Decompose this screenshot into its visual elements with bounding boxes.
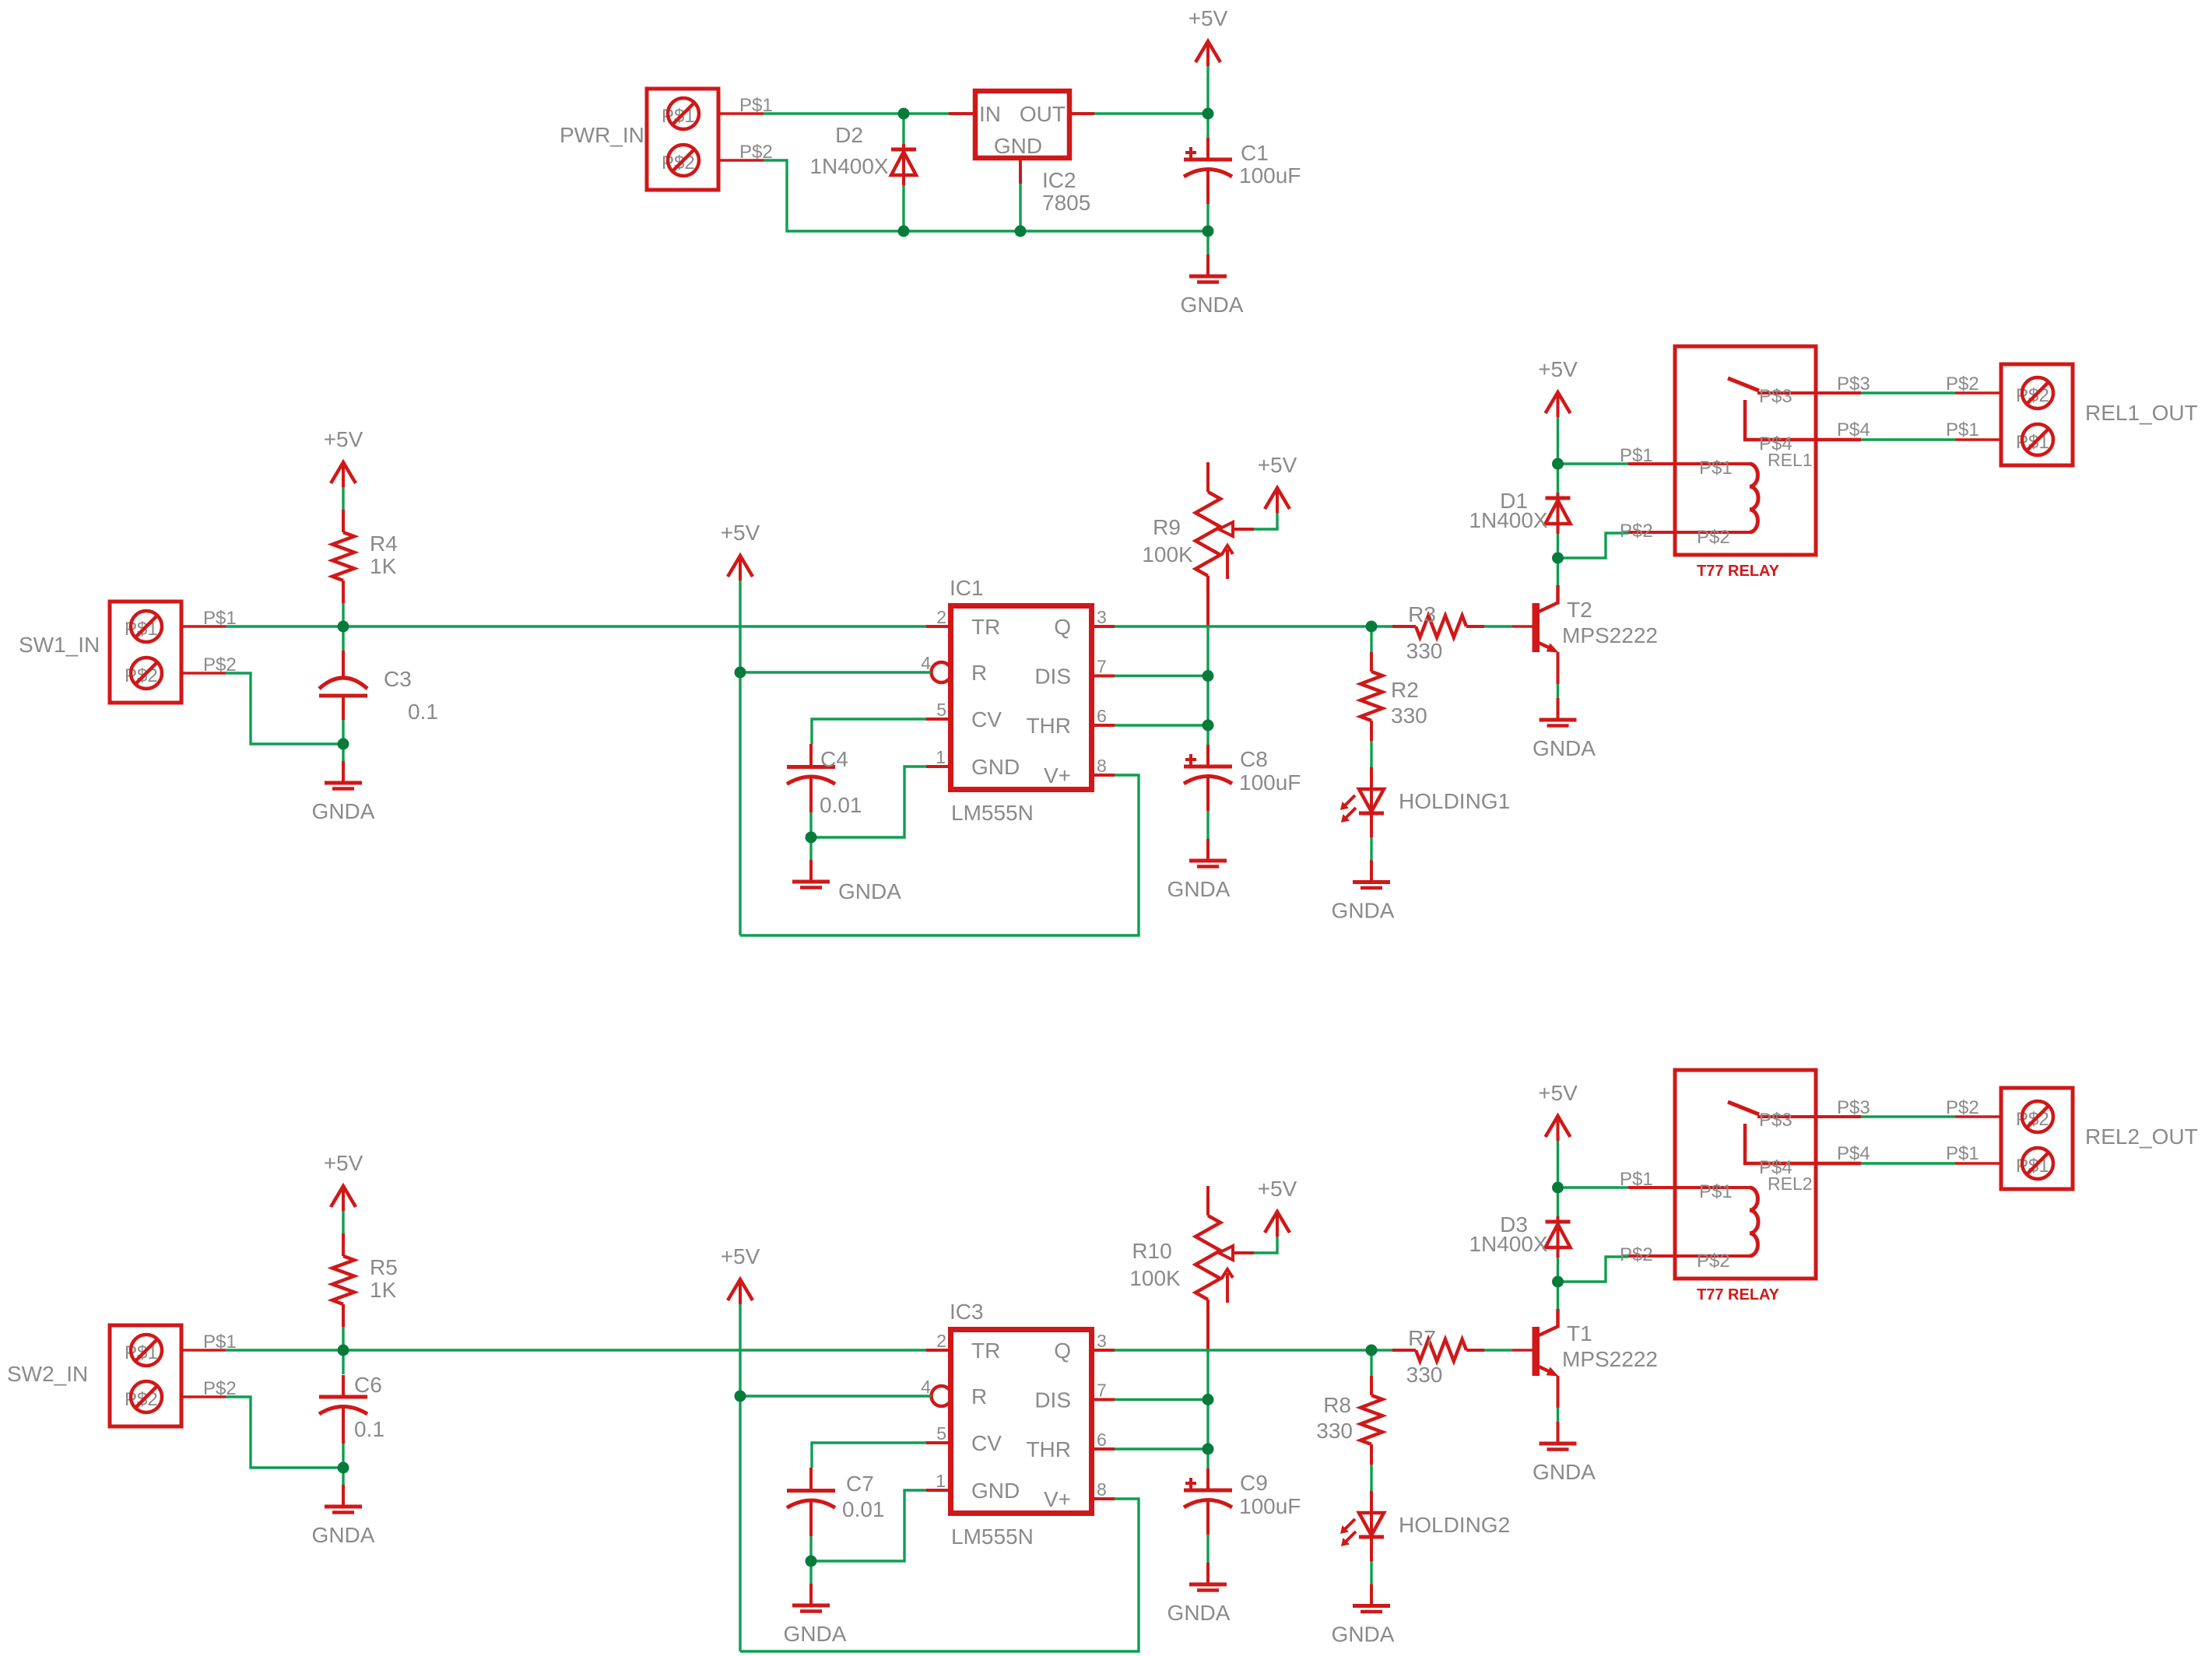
pin 4 R inversion circle [932, 1386, 952, 1406]
svg-text:GNDA: GNDA [1332, 1623, 1395, 1647]
wire collector node to relay P$2 [1558, 1257, 1629, 1282]
node junction reset row [735, 1391, 746, 1402]
svg-text:P$1: P$1 [1699, 458, 1733, 479]
node cap ground junction [806, 832, 817, 844]
wire reset row to pin 4 [740, 1395, 932, 1397]
svg-text:7: 7 [1097, 657, 1107, 677]
pin 6 THR [1091, 1447, 1115, 1451]
svg-text:TR: TR [971, 615, 1000, 639]
wire cap to ground junction [809, 1536, 812, 1561]
svg-text:P$4: P$4 [1837, 1143, 1870, 1164]
svg-text:P$3: P$3 [1759, 1110, 1792, 1131]
pin 2 TR [926, 1349, 951, 1352]
wire junction to GNDA [809, 837, 812, 860]
svg-text:V+: V+ [1044, 1487, 1071, 1511]
wire PWR_IN P$2 to ground bus [764, 160, 1208, 231]
wire D2 bottom [902, 185, 904, 231]
wire +5V vertical rail [739, 581, 741, 935]
wire node to diode [1557, 464, 1559, 493]
svg-text:7: 7 [1097, 1381, 1107, 1401]
wire relay P$3 out [1837, 1097, 1955, 1118]
svg-text:P$3: P$3 [1759, 386, 1792, 407]
pin 7 DIS [1091, 1398, 1115, 1402]
svg-text:P$1: P$1 [1620, 1169, 1653, 1190]
svg-text:T2: T2 [1567, 598, 1592, 622]
pin 3 Q [1091, 625, 1115, 628]
svg-text:0.01: 0.01 [820, 793, 862, 817]
wire collector node to relay P$2 [1558, 533, 1629, 558]
wire IC2 OUT to +5V node [1094, 112, 1208, 114]
wire resistor to trigger node [342, 1327, 344, 1350]
svg-text:THR: THR [1026, 714, 1071, 738]
svg-text:+5V: +5V [1189, 6, 1228, 30]
svg-text:GNDA: GNDA [838, 879, 901, 903]
wire +5V to resistor [342, 487, 344, 510]
pin 3 Q [1091, 1349, 1115, 1352]
ground GNDA (power section) [1181, 254, 1244, 317]
ground GNDA under C6 [312, 1485, 375, 1547]
svg-text:IN: IN [979, 102, 1001, 126]
wire node to C1 [1206, 114, 1209, 138]
capacitor C8 100uF [1184, 745, 1301, 811]
node cap ground junction [338, 739, 349, 750]
svg-text:T77 RELAY: T77 RELAY [1697, 1286, 1780, 1303]
wire wiper to +5V [1254, 1233, 1277, 1253]
wire LED branch down [1370, 1350, 1372, 1376]
svg-text:3: 3 [1097, 1331, 1107, 1351]
wire junction to GNDA [809, 1561, 812, 1584]
svg-text:8: 8 [1097, 756, 1107, 776]
pin 5 CV [926, 717, 951, 721]
svg-text:T1: T1 [1567, 1321, 1592, 1345]
node cap ground junction [338, 1462, 349, 1474]
wire relay P$4 out [1837, 419, 1955, 440]
svg-text:330: 330 [1406, 639, 1443, 663]
svg-text:R4: R4 [370, 532, 398, 556]
svg-text:330: 330 [1406, 1363, 1443, 1387]
wire THR junction to cap [1206, 1449, 1209, 1468]
svg-text:R10: R10 [1132, 1239, 1171, 1263]
pin 1 GND [926, 1489, 951, 1492]
svg-text:2: 2 [936, 1331, 946, 1351]
svg-text:P$2: P$2 [1697, 1251, 1730, 1272]
wire ground junction to pin 1 [811, 1490, 926, 1561]
svg-text:GNDA: GNDA [1533, 1460, 1596, 1484]
svg-text:PWR_IN: PWR_IN [560, 123, 644, 147]
diode D2 1N400X [809, 123, 916, 185]
pin 8 V+ [1091, 774, 1115, 777]
pin P$2 of PWR_IN [718, 142, 773, 163]
wire DIS junction to THR junction [1206, 676, 1209, 726]
svg-text:MPS2222: MPS2222 [1562, 1347, 1658, 1371]
node junction output to LED branch [1366, 621, 1378, 633]
pin P$2 of SW1_IN [182, 654, 237, 675]
wire emitter to GNDA [1557, 1408, 1559, 1422]
connector PWR_IN terminal block [560, 89, 718, 190]
wire to GNDA [342, 1468, 344, 1485]
wire wiper to +5V [1254, 510, 1277, 529]
wire resistor to LED [1370, 741, 1372, 767]
svg-text:R2: R2 [1391, 678, 1419, 702]
power +5V above D3 [1538, 1081, 1578, 1141]
svg-text:100uF: 100uF [1239, 163, 1301, 188]
wire +5V vertical rail [739, 1304, 741, 1651]
ground GNDA under T2 [1533, 698, 1596, 760]
svg-text:100uF: 100uF [1239, 770, 1301, 795]
pin 1 GND [926, 765, 951, 768]
wire switch P$2 to cap bottom [226, 673, 343, 744]
wire pot column down [1206, 627, 1209, 676]
svg-text:IC2: IC2 [1042, 168, 1076, 192]
wire +5V to coil node [1557, 1141, 1559, 1188]
pin 2 TR [926, 625, 951, 628]
node trigger junction [338, 621, 349, 633]
svg-text:P$3: P$3 [1837, 1097, 1870, 1118]
diode D3 1N400X [1469, 1212, 1570, 1258]
wire +5V to resistor [342, 1211, 344, 1233]
svg-text:C8: C8 [1240, 747, 1268, 771]
svg-text:V+: V+ [1044, 763, 1071, 788]
power +5V above IC1 [721, 521, 760, 581]
svg-text:REL1_OUT: REL1_OUT [2085, 401, 2198, 425]
svg-text:R7: R7 [1408, 1326, 1436, 1350]
svg-text:THR: THR [1026, 1437, 1071, 1461]
wire PWR_IN P$1 to D2/IC2 IN [764, 112, 949, 114]
svg-text:T77 RELAY: T77 RELAY [1697, 563, 1780, 580]
svg-text:SW1_IN: SW1_IN [19, 633, 100, 657]
node cap ground junction [806, 1556, 817, 1567]
resistor R7 330 [1392, 1326, 1484, 1387]
pin P$1 of PWR_IN [718, 95, 773, 116]
pin P$2 of REL1_OUT [1946, 374, 2001, 395]
svg-text:CV: CV [971, 1431, 1002, 1455]
wire +5V to coil node [1557, 417, 1559, 464]
svg-text:100K: 100K [1142, 542, 1193, 567]
svg-text:HOLDING2: HOLDING2 [1399, 1513, 1510, 1537]
resistor R4 1K [332, 510, 398, 603]
svg-text:DIS: DIS [1034, 665, 1071, 689]
capacitor C1 100uF [1184, 138, 1301, 204]
wire pot column down [1206, 1351, 1209, 1400]
svg-text:GNDA: GNDA [1167, 877, 1231, 901]
ground GNDA under HOLDING2 [1332, 1584, 1395, 1647]
wire reset row to pin 4 [740, 671, 932, 673]
wire cap to GNDA [1206, 1535, 1209, 1563]
svg-text:DIS: DIS [1034, 1388, 1071, 1412]
svg-text:LM555N: LM555N [951, 1524, 1034, 1549]
power +5V at wiper [1258, 453, 1297, 513]
svg-text:C9: C9 [1240, 1471, 1268, 1495]
svg-text:C4: C4 [820, 747, 848, 771]
svg-text:OUT: OUT [1020, 102, 1066, 126]
svg-text:3: 3 [1097, 607, 1107, 627]
svg-text:IC1: IC1 [950, 576, 984, 600]
wire switch P$1 to trigger net [226, 625, 926, 627]
wire relay P$3 out [1837, 374, 1955, 395]
pin P$1 of SW2_IN [182, 1331, 237, 1353]
wire pot bottom to output row [1206, 576, 1210, 627]
wire coil+ node to relay P$1 [1558, 462, 1629, 465]
wire THR to pot column [1115, 724, 1208, 726]
svg-text:P$2: P$2 [1620, 521, 1653, 542]
wire THR junction to cap [1206, 725, 1209, 745]
wire junction to base resistor [1371, 1349, 1392, 1351]
node junction at D2 top [898, 108, 910, 120]
node junction THR [1203, 1444, 1214, 1455]
pin GND of IC2 [1019, 160, 1022, 184]
node junction +5V at C1 [1203, 108, 1214, 120]
wire node to diode [1557, 1188, 1559, 1216]
capacitor C7 0.01 [787, 1468, 885, 1536]
wire cap to ground node [342, 720, 344, 744]
pin P$1 of REL2_OUT [1946, 1143, 2001, 1164]
svg-text:0.01: 0.01 [842, 1497, 885, 1521]
svg-text:REL2: REL2 [1768, 1174, 1813, 1194]
ground GNDA under HOLDING1 [1332, 861, 1395, 923]
resistor trimmer R9 100K [1142, 462, 1254, 579]
power +5V (regulator output) [1189, 6, 1228, 66]
wire DIS junction to THR junction [1206, 1400, 1209, 1450]
svg-text:7805: 7805 [1042, 191, 1090, 215]
svg-text:P$2: P$2 [1946, 1097, 1979, 1118]
svg-text:1: 1 [936, 747, 946, 767]
wire Q output row [1115, 625, 1371, 627]
ground GNDA under C3 [312, 761, 375, 823]
node junction coil+ node [1552, 458, 1564, 470]
wire V+ loop [740, 775, 1139, 935]
svg-text:GNDA: GNDA [784, 1622, 847, 1646]
svg-text:P$1: P$1 [1620, 445, 1653, 466]
node junction IC2 GND at bus [1015, 226, 1027, 237]
pin P$2 of REL2_OUT [1946, 1097, 2001, 1118]
svg-text:P$2: P$2 [1697, 527, 1730, 548]
svg-text:1N400X: 1N400X [1469, 1232, 1548, 1256]
wire resistor to trigger node [342, 603, 344, 626]
node junction DIS [1203, 1394, 1214, 1405]
connector SW2_IN terminal block [7, 1325, 181, 1426]
svg-text:R9: R9 [1153, 515, 1181, 539]
power +5V at wiper [1258, 1177, 1297, 1237]
svg-text:P$3: P$3 [1837, 374, 1870, 395]
wire ground junction to pin 1 [811, 767, 926, 837]
svg-text:Q: Q [1054, 615, 1071, 639]
svg-text:+5V: +5V [324, 427, 363, 451]
svg-text:TR: TR [971, 1338, 1000, 1363]
capacitor C9 100uF [1184, 1468, 1301, 1535]
svg-text:D2: D2 [835, 123, 863, 147]
svg-text:6: 6 [1097, 1430, 1107, 1450]
svg-text:+5V: +5V [721, 521, 760, 545]
svg-text:4: 4 [921, 653, 931, 673]
ground GNDA under T1 [1533, 1422, 1596, 1484]
svg-text:P$1: P$1 [1946, 1143, 1979, 1164]
wire coil+ node to relay P$1 [1558, 1186, 1629, 1188]
wire CV to cap [812, 1443, 926, 1468]
pin OUT of IC2 [1072, 112, 1094, 115]
power +5V above D1 [1538, 357, 1578, 417]
svg-text:5: 5 [936, 700, 946, 720]
svg-text:C1: C1 [1241, 141, 1269, 165]
wire LED to GNDA [1370, 837, 1372, 861]
svg-text:GNDA: GNDA [1533, 736, 1596, 760]
wire Q output row [1115, 1349, 1371, 1351]
wire diode to collector node [1557, 1258, 1559, 1282]
svg-text:MPS2222: MPS2222 [1562, 623, 1658, 647]
resistor R2 330 [1361, 652, 1427, 741]
resistor R3 330 [1392, 602, 1484, 663]
svg-text:R: R [971, 1384, 987, 1409]
pin 7 DIS [1091, 675, 1115, 678]
wire collector to relay node [1557, 1282, 1559, 1309]
wire diode to collector node [1557, 534, 1559, 558]
wire collector to relay node [1557, 558, 1559, 585]
wire node to debounce cap [342, 1350, 344, 1374]
capacitor C3 0.1 [319, 651, 438, 724]
svg-text:100K: 100K [1129, 1266, 1181, 1290]
wire node to debounce cap [342, 626, 344, 651]
capacitor C4 0.01 [787, 744, 862, 817]
svg-text:0.1: 0.1 [354, 1417, 384, 1441]
pin IN of IC2 [949, 112, 973, 115]
diode D1 1N400X [1469, 489, 1570, 534]
svg-text:C3: C3 [384, 667, 412, 691]
wire bus to GNDA [1206, 231, 1209, 254]
svg-text:5: 5 [936, 1423, 946, 1444]
svg-text:P$1: P$1 [1946, 419, 1979, 440]
svg-text:GNDA: GNDA [1181, 293, 1244, 317]
wire junction to base resistor [1371, 625, 1392, 627]
wire LED to GNDA [1370, 1561, 1372, 1584]
svg-text:GNDA: GNDA [1332, 899, 1395, 923]
svg-text:100uF: 100uF [1239, 1494, 1301, 1518]
wire cap to GNDA [1206, 811, 1209, 839]
svg-text:1K: 1K [370, 554, 397, 578]
connector REL1_OUT terminal block [2001, 364, 2198, 465]
relay REL1 T77 [1620, 346, 1861, 580]
svg-text:8: 8 [1097, 1479, 1107, 1500]
power +5V above R5 [324, 1151, 363, 1211]
svg-text:+5V: +5V [1538, 357, 1578, 381]
LED HOLDING1 [1340, 767, 1510, 837]
svg-text:GND: GND [971, 1479, 1020, 1503]
wire pot bottom to output row [1206, 1300, 1210, 1351]
node junction reset row [735, 667, 746, 679]
wire IC2 GND to ground bus [1019, 184, 1021, 231]
wire base resistor to transistor [1484, 1349, 1512, 1351]
svg-text:P$1: P$1 [1699, 1181, 1733, 1202]
transistor T1 MPS2222 [1512, 1309, 1658, 1408]
node junction collector node [1552, 1276, 1564, 1288]
svg-text:+5V: +5V [721, 1244, 760, 1268]
wire THR to pot column [1115, 1447, 1208, 1450]
node junction THR [1203, 720, 1214, 732]
svg-text:SW2_IN: SW2_IN [7, 1362, 88, 1386]
svg-text:4: 4 [921, 1377, 931, 1397]
capacitor C6 0.1 [319, 1373, 384, 1444]
svg-text:C7: C7 [846, 1472, 874, 1496]
node junction D2 to ground bus [898, 226, 910, 237]
wire +5V arrow down to node [1206, 66, 1209, 114]
wire DIS to pot column [1115, 1398, 1208, 1401]
svg-text:P$2: P$2 [1946, 374, 1979, 395]
svg-text:6: 6 [1097, 706, 1107, 726]
wire cap to ground node [342, 1444, 344, 1468]
pin P$1 of SW1_IN [182, 608, 237, 629]
svg-text:1N400X: 1N400X [809, 154, 889, 178]
wire LED branch down [1370, 626, 1372, 652]
svg-text:REL1: REL1 [1768, 450, 1813, 470]
svg-text:2: 2 [936, 607, 946, 627]
wire C1 to ground bus [1206, 204, 1209, 231]
resistor R8 330 [1316, 1376, 1382, 1465]
node trigger junction [338, 1345, 349, 1356]
resistor R5 1K [332, 1233, 398, 1327]
svg-text:+5V: +5V [1258, 453, 1297, 477]
svg-text:1K: 1K [370, 1278, 397, 1302]
svg-text:1: 1 [936, 1471, 946, 1491]
connector SW1_IN terminal block [19, 602, 181, 703]
node junction collector node [1552, 553, 1564, 564]
svg-text:CV: CV [971, 707, 1002, 732]
wire cap to ground junction [809, 812, 812, 837]
wire DIS to pot column [1115, 675, 1208, 677]
pin P$2 of SW2_IN [182, 1378, 237, 1399]
svg-text:C6: C6 [354, 1373, 382, 1397]
pin 6 THR [1091, 724, 1115, 727]
svg-text:+5V: +5V [324, 1151, 363, 1175]
wire emitter to GNDA [1557, 684, 1559, 698]
node junction coil+ node [1552, 1182, 1564, 1194]
svg-text:+5V: +5V [1258, 1177, 1297, 1201]
op-amp/timer IC3 LM555N [921, 1300, 1107, 1549]
svg-text:LM555N: LM555N [951, 801, 1034, 825]
wire to GNDA [342, 744, 344, 761]
svg-text:P$2: P$2 [1620, 1244, 1653, 1265]
svg-text:GND: GND [971, 755, 1020, 779]
ground GNDA under C4 [792, 860, 901, 903]
wire V+ loop [740, 1499, 1139, 1651]
wire resistor to LED [1370, 1465, 1372, 1491]
svg-text:P$4: P$4 [1837, 419, 1870, 440]
ground GNDA under C8 [1167, 839, 1231, 901]
resistor trimmer R10 100K [1129, 1186, 1254, 1303]
ground GNDA under C9 [1167, 1563, 1231, 1625]
svg-text:HOLDING1: HOLDING1 [1399, 789, 1510, 813]
wire relay P$4 out [1837, 1143, 1955, 1164]
svg-text:GNDA: GNDA [1167, 1601, 1231, 1625]
svg-text:+5V: +5V [1538, 1081, 1578, 1105]
svg-text:1N400X: 1N400X [1469, 508, 1548, 532]
node junction DIS [1203, 670, 1214, 682]
svg-text:R3: R3 [1408, 602, 1436, 626]
pin P$1 of REL1_OUT [1946, 419, 2001, 440]
pin 4 R inversion circle [932, 662, 952, 682]
svg-text:GND: GND [994, 134, 1042, 158]
svg-text:IC3: IC3 [950, 1300, 984, 1324]
svg-text:330: 330 [1391, 703, 1427, 728]
connector REL2_OUT terminal block [2001, 1088, 2198, 1189]
wire D2 top [902, 114, 904, 144]
pin 8 V+ [1091, 1497, 1115, 1500]
op-amp/timer IC1 LM555N [921, 576, 1107, 825]
wire CV to cap [812, 719, 926, 744]
svg-text:R8: R8 [1323, 1393, 1351, 1417]
node junction C1 at bus [1203, 226, 1214, 237]
wire base resistor to transistor [1484, 625, 1512, 627]
wire switch P$1 to trigger net [226, 1349, 926, 1351]
wire switch P$2 to cap bottom [226, 1397, 343, 1468]
voltage regulator IC2 7805 [975, 91, 1090, 215]
